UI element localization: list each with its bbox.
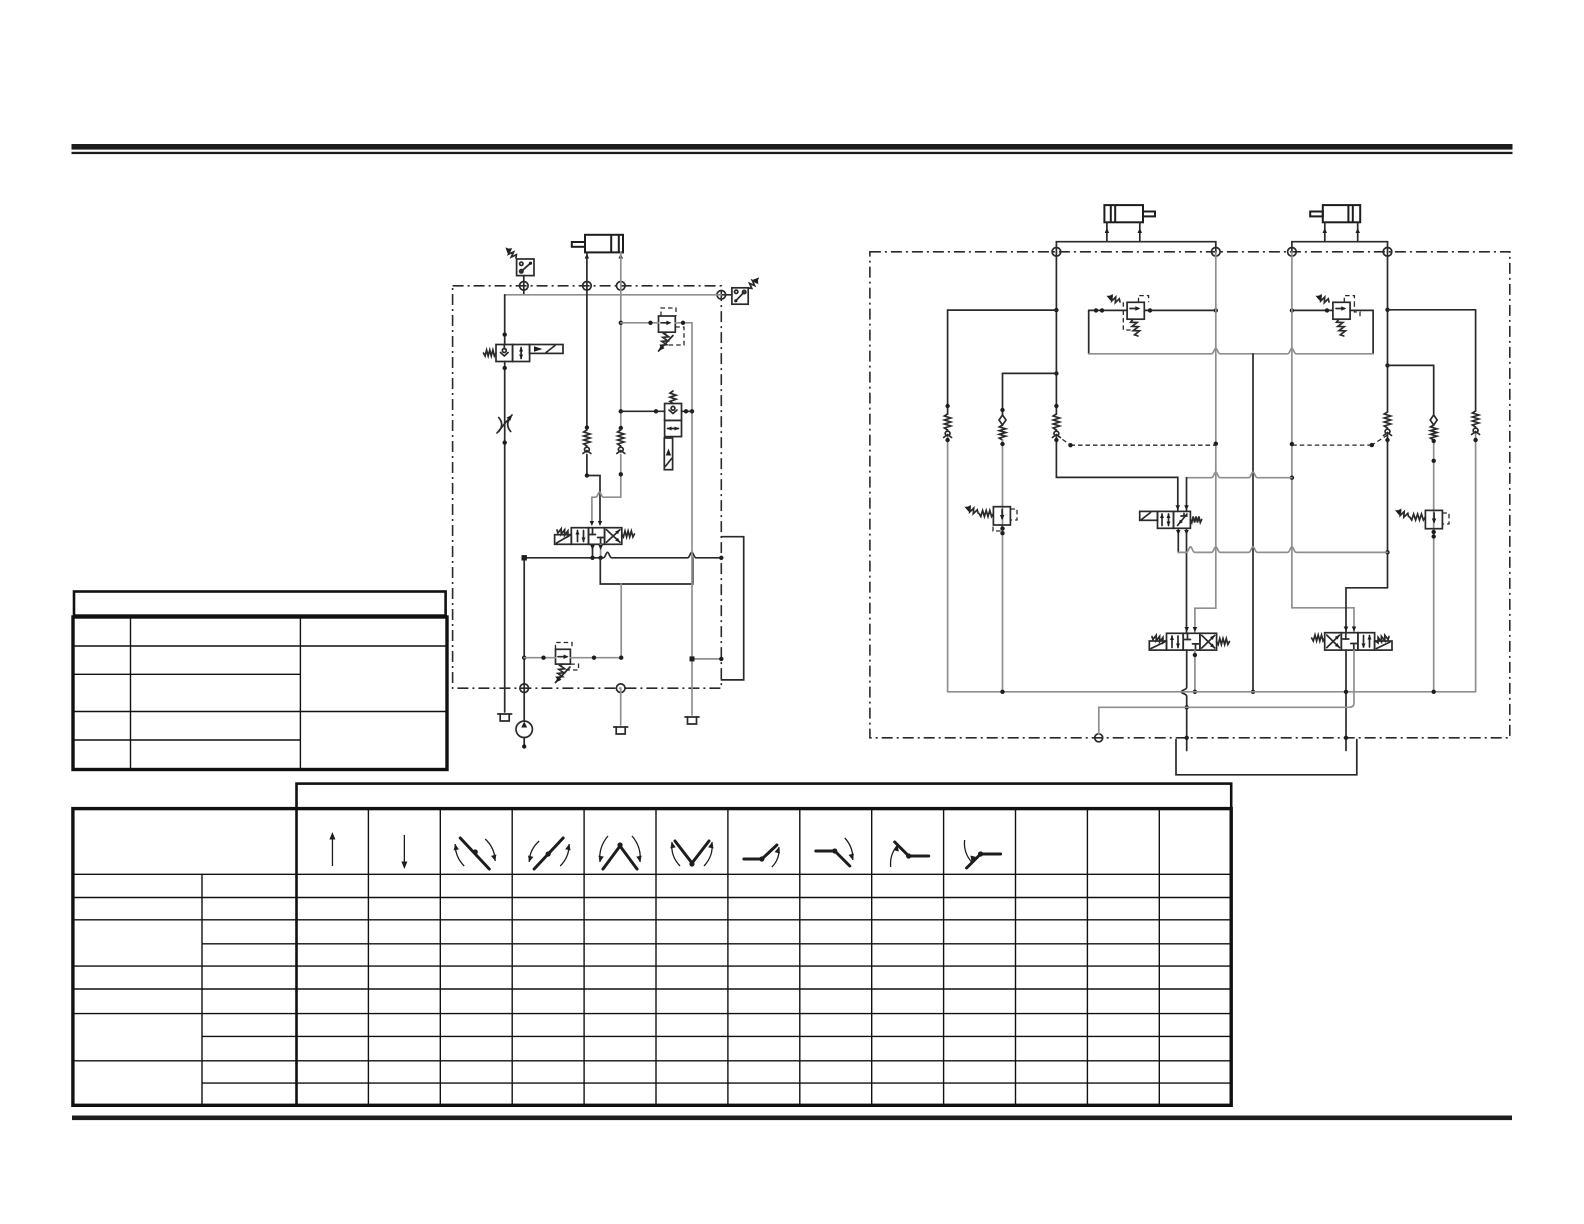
wire riser B x1216 [1215,252,1217,608]
directional valve DV1L body [571,528,588,545]
reducing valve PRV2 body [1425,510,1442,528]
wire branch x1002 [1002,373,1004,415]
PRV1 pilot dashes [1010,509,1017,520]
V2L shuttle arrows [668,428,679,430]
SV arrows [1161,514,1163,526]
pilot dashed lines [1056,435,1070,445]
check-solenoid valve V2L body [665,404,682,421]
glyph col2 arrow down [403,835,405,866]
bottom table symbol column dividers [367,809,369,1106]
pressure switch PS1 adjust arrow [508,249,517,258]
DV1L bottom ports [592,544,594,558]
wire drain gallery [1099,706,1349,708]
cylinder CYL2 body [1104,205,1143,222]
wire line B to PRVL [621,322,659,324]
valve V1 spring [484,350,497,356]
wire drain riser to boundary outlet [1098,707,1100,734]
DV1 blocked centre [1187,633,1189,639]
cylinder CYL1 piston lines [610,235,612,253]
wire relief line [524,657,555,659]
glyph col1 arrow up [331,835,333,866]
DV1L right spring [622,531,635,537]
check restrictor x1476 [1472,411,1478,427]
cylinder CYL1 body [585,235,623,253]
right circuit enclosure dash-dot boundary [870,252,1510,738]
bottom table top band [297,784,1232,809]
glyph col6 both ends up valley [675,841,709,863]
wire main pressure gallery [524,552,721,558]
SV solenoid [1140,511,1158,520]
pump P1 [516,721,532,737]
DV1L blocked centre [592,528,594,535]
left table outer border [73,617,447,770]
wire riser A1 x1056 [1055,252,1057,414]
throttle valve restrictor [499,418,502,432]
page top double rule [72,144,1513,150]
DV1L parallel arrows [577,531,579,542]
DV2 bottom ports [1345,650,1347,750]
left table column dividers [130,617,132,770]
CBVL spring [1131,319,1140,336]
DV2 right solenoid [1375,641,1392,650]
wire horizontals left group [948,309,1057,311]
V2L solenoid [664,438,672,470]
cylinder CYL3 body [1323,205,1360,222]
V2L check symbol [669,410,677,414]
CBVR pilot dash box [1344,296,1354,303]
check valve x1434 [1430,415,1437,425]
wire CYL2 header [1056,242,1215,252]
pressure switch PS2 box [732,288,748,304]
wire return drop x692 to tank [691,323,693,715]
wire gallery to pilot valve SV [1187,472,1292,478]
DV1L left spring [557,529,571,537]
DV2 crossed arrows [1327,635,1340,648]
wire A1 lower to gallery corner [1056,438,1177,512]
reservoir box below enclosure [1176,740,1357,775]
wire supply riser x524 [523,558,525,722]
relief valve RVL spring [557,664,565,680]
tank T2 [614,726,628,728]
wire horizontals right group [1388,309,1476,311]
check restrictor D [1384,412,1390,428]
SV spring [1190,517,1201,523]
PRVL spring [661,332,669,348]
wire branch x948 [947,310,949,414]
wire into CBVR [1292,309,1333,311]
relief valve RVL pilot dashes [556,643,573,650]
DV2 parallel arrows [1363,636,1365,648]
pressure reducing valve PRVL body [659,316,676,332]
wire V1 down to tank line [504,362,506,713]
cylinder CYL2 ports [1106,222,1108,241]
DV1 top port arrow [1185,627,1190,632]
wire B jog into DV1 [1195,608,1216,633]
wire line A to valve port jog [587,455,600,523]
bottom table left column dividers [201,874,203,1105]
wire CBVL loop riser [1088,310,1090,353]
counterbalance valve CBVL body [1127,302,1144,319]
wire centre drop x1253 [1252,354,1254,692]
left table row lines [73,645,447,647]
counterbalance valve CBVR body [1333,302,1350,319]
wire riser C x1292 [1291,252,1293,608]
wire pilot header inside enclosure [505,294,722,296]
wire SV to riser D gallery [1178,547,1387,553]
wire into CBVL [1089,309,1127,311]
glyph col5 both ends down peak [603,846,637,869]
DV2 top port arrow [1344,627,1348,632]
DV1L crossed arrows [607,530,620,542]
V2L spring top [670,391,676,404]
left table header box [74,592,446,616]
external loop piping [721,537,743,680]
tank T1 [498,713,512,715]
wire CBVR loop riser [1372,310,1374,353]
glyph col10 left end down [967,854,1001,868]
pressure switch PS1 box [517,259,534,276]
page bottom rule [72,1116,1512,1121]
left circuit enclosure dash-dot boundary [453,286,722,688]
wire CYL3 header [1292,242,1388,252]
check restrictor x948 [944,414,950,430]
DV1 bottom ports [1181,650,1187,750]
bulkhead connector circles on left enclosure [520,282,529,291]
directional valve DV2 body [1325,633,1342,650]
DV2 right spring [1376,635,1390,643]
directional valve DV1 body [1167,633,1184,650]
bulkhead connector circles on right enclosure [1052,248,1061,257]
wire branch x1434 [1433,365,1435,415]
wire CBVR out [1350,309,1373,311]
DV1 left solenoid [1149,641,1166,650]
reducing valve PRV1 body [993,507,1010,525]
DV1L left solenoid [555,535,572,545]
PRV1 spring [979,511,993,517]
CBVR spring [1337,319,1346,336]
DV1 parallel arrows [1171,636,1173,648]
wire tank gallery [948,691,1476,693]
bottom table outer border [73,809,1231,1106]
check restrictor A1 [1053,414,1059,430]
wire PRVL to return drop [675,322,692,324]
cylinder CYL1 port arrows [585,254,590,259]
CBVL pilot dash box [1139,296,1149,303]
PRV2 spring [1410,514,1426,520]
wire PS1 to boundary [523,276,525,295]
cylinder CYL1 rod [572,242,585,247]
pressure switch PS2 adjust arrow [749,280,758,289]
pilot valve SV body [1158,511,1174,528]
DV1 left spring [1152,635,1166,643]
wire CBVL out [1144,309,1216,311]
cylinder CYL3 rod [1310,212,1323,217]
glyph col7 right end up [744,845,777,859]
wire header drop to valve V1 [504,295,506,345]
glyph col8 right end down [816,851,850,866]
bottom table header bottom line [73,873,1231,875]
DV1 crossed arrows [1202,635,1215,648]
wire cylinder line B x621 [620,252,622,429]
SV bottom ports [1177,528,1179,552]
DV2 left spring [1312,635,1325,641]
DV2 blocked centre [1345,633,1347,639]
wire line B to valve port jog [620,455,622,498]
check restrictor on line B [618,430,624,446]
valve V1 flow arrow [520,348,522,359]
check restrictor on line A [584,430,590,446]
glyph col3 tilt seesaw backslash [460,838,489,869]
manifold block outline [600,558,693,584]
wire cylinder line A x587 [586,252,588,429]
glyph col9 left end up [895,842,929,856]
valve V1 2-2 solenoid body [496,345,513,362]
wire boundary to PS2 [721,294,732,296]
valve V1 check symbol [501,353,509,357]
tank T3 [685,716,699,718]
wire line B to V2L [621,410,665,412]
tank T2 drop [620,688,622,725]
relief valve RVL body [556,649,571,664]
DV1 right spring [1217,639,1230,645]
SV diagonal [1178,514,1188,526]
cylinder CYL2 rod [1143,212,1155,217]
valve V1 solenoid box [530,345,563,354]
cylinder CYL3 ports [1324,222,1326,241]
wire branch x1476 [1475,310,1477,411]
wire manifold drop to relief line [620,584,622,658]
wire C jog into DV2 [1292,608,1354,633]
wire counterbalance loop gallery [1089,348,1373,354]
glyph col4 tilt seesaw slash [534,838,563,869]
wire riser D x1387 [1387,252,1389,412]
PRV2 pilot dashes [1442,513,1449,524]
check valve x1002 [999,415,1006,425]
wire V2L to return drop [682,410,693,412]
wire D jog into DV2 [1346,588,1388,633]
wire return branch to boundary [692,658,721,660]
PRVL pilot dash box [661,308,676,316]
bottom table row lines [73,897,1231,899]
